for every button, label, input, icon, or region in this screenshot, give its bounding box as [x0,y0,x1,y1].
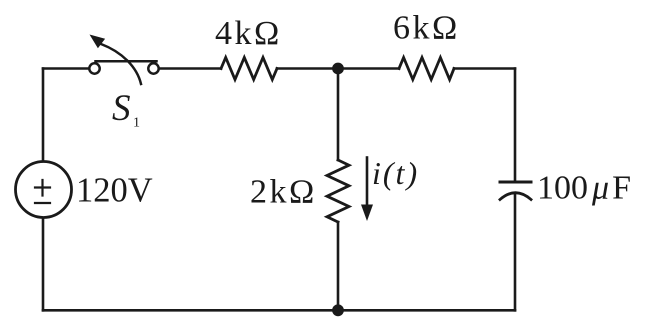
voltage source plus sign [35,180,50,196]
bottom node junction dot [332,304,344,316]
wire right vertical upper (corner down to capacitor top plate) [514,69,517,183]
switch S1 blade [96,60,157,63]
wire middle vertical upper (top node down to 2k resistor) [337,69,340,161]
wire right vertical lower (capacitor bottom to bottom rail) [514,194,517,311]
wire middle vertical lower (2k resistor to bottom node) [337,222,340,310]
wire left vertical lower (source bottom to bottom rail) [42,219,45,310]
current arrow i(t) arrowhead [361,205,373,222]
current arrow i(t) shaft [366,158,369,207]
top node junction dot [332,63,344,75]
wire left-top horizontal (corner to switch left contact) [43,67,89,70]
voltage source V1 circle [16,162,72,218]
capacitor C1 curved bottom plate [500,193,531,200]
svg-text:2kΩ: 2kΩ [250,174,317,211]
wire top node to 6k resistor [338,67,399,70]
svg-text:100μF: 100μF [537,170,631,207]
svg-text:6kΩ: 6kΩ [393,10,460,47]
svg-text:S: S [112,88,131,129]
wire 4k resistor to top node [277,67,338,70]
svg-text:4kΩ: 4kΩ [215,15,282,52]
wire 6k resistor to top-right corner [454,67,515,70]
wire switch right contact to 4k resistor [159,67,221,70]
capacitor C1 flat top plate [500,181,531,184]
switch S1 left contact circle [89,63,99,73]
resistor R3 2kOhm vertical zigzag [327,160,349,222]
svg-text:1: 1 [133,116,140,131]
wire left vertical upper (corner down to source top) [42,69,45,162]
wire bottom rail [43,309,515,312]
switch S1 opening arc [101,44,141,84]
svg-text:i(t): i(t) [372,155,419,191]
resistor R2 6kOhm zigzag [399,58,454,80]
voltage source minus sign [35,202,50,204]
resistor R1 4kOhm zigzag [221,58,277,80]
switch S1 right contact circle [148,63,158,73]
svg-text:120V: 120V [76,172,153,210]
switch S1 arrowhead [90,35,106,49]
